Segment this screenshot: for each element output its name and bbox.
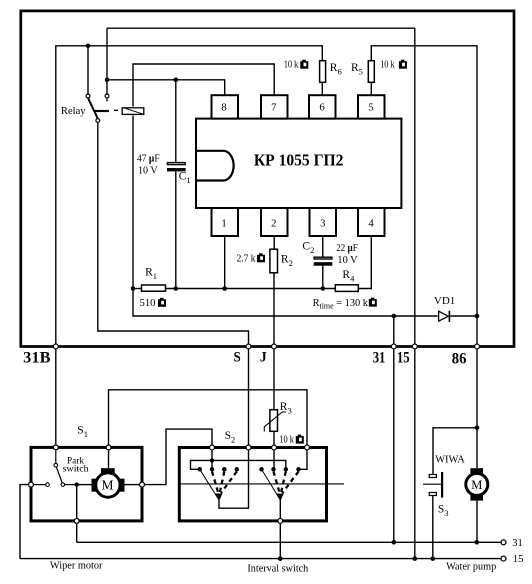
left cluster contacts: [197, 467, 239, 472]
node junction rail15 b: [413, 556, 418, 561]
relay arm pivot contact: [96, 119, 100, 123]
terminal J: [272, 344, 277, 349]
terminal interval J: [272, 445, 277, 450]
wire: interval 1 drop: [211, 450, 213, 469]
svg-text:8: 8: [221, 101, 226, 113]
resistor R6: [320, 61, 326, 83]
wire: pivot to bottom terminal: [279, 500, 281, 518]
svg-text:510: 510: [140, 298, 156, 309]
diode VD1: [439, 311, 450, 322]
wire: motor plus: [108, 450, 110, 468]
svg-text:31: 31: [373, 350, 386, 367]
terminal 15 bottom: [501, 556, 506, 561]
wire: wiper right to interval contact 1: [145, 429, 212, 485]
node junction rail15 a: [278, 556, 283, 561]
wire: terminal 15 below: [414, 349, 416, 558]
terminal interval bottom: [278, 519, 283, 524]
wire: J drop to contact: [273, 450, 275, 469]
wiper motor M1: [92, 468, 125, 497]
wire: node to terminal 31: [393, 316, 395, 347]
node junction relay b / pin8: [105, 78, 110, 83]
IC pin 5: [358, 95, 385, 118]
svg-text:5: 5: [368, 101, 373, 113]
svg-text:47 µF: 47 µF: [137, 154, 160, 165]
wire: net 15 top run: [107, 28, 415, 346]
svg-text:7: 7: [271, 101, 277, 113]
wire: R6 to pin 6: [321, 83, 323, 95]
wire: wiper bottom terminal to rail 31: [76, 524, 78, 543]
wire: S to interval switch: [248, 349, 250, 444]
label R2 value: [237, 253, 265, 264]
terminal 86: [475, 344, 480, 349]
wire: J to R3: [273, 349, 275, 409]
node junction terminal 31: [392, 314, 397, 319]
wire: pump to rail 31: [476, 501, 478, 543]
node junction rail31 a: [392, 540, 397, 545]
svg-text:switch: switch: [63, 464, 89, 474]
rail 31 bottom: [77, 541, 501, 543]
right cluster pivot arrow: [277, 494, 284, 502]
resistor R2: [270, 249, 278, 273]
wire: pin 1 to R1 rail: [224, 236, 226, 289]
svg-text:M: M: [102, 478, 114, 493]
svg-text:4: 4: [368, 218, 374, 230]
IC pin 7: [261, 95, 288, 118]
wire: relay contact b drop: [106, 28, 108, 94]
node junction rail31 b: [475, 540, 480, 545]
wire: pin 2 to R2: [273, 236, 275, 249]
capacitor C2: [314, 257, 333, 266]
wire: R3 to interval switch: [273, 432, 275, 445]
terminal interval 4: [305, 445, 310, 450]
svg-text:S: S: [234, 350, 241, 366]
wire: park node down: [76, 485, 78, 518]
wire: wiper left terminal to ground rail: [20, 485, 28, 559]
terminal interval 1: [210, 445, 215, 450]
node junction park: [75, 482, 79, 486]
label R6 value: [284, 60, 309, 71]
IC pin 8: [212, 95, 239, 118]
IC U1 body: [196, 119, 401, 208]
terminal interval S: [246, 445, 251, 450]
svg-text:15: 15: [397, 350, 410, 367]
IC pin 6: [309, 95, 336, 118]
svg-text:10 k: 10 k: [284, 60, 299, 71]
svg-text:1: 1: [221, 218, 226, 230]
svg-text:Water pump: Water pump: [446, 561, 497, 573]
relay contact b: [105, 94, 109, 98]
right cluster dashed positions: [274, 472, 299, 494]
wire: R1 right to C2 node: [166, 288, 335, 290]
svg-text:10 k: 10 k: [279, 435, 294, 446]
label R5 value: [380, 60, 407, 71]
svg-text:6: 6: [319, 101, 325, 113]
wire: terminal 86 below: [476, 349, 478, 468]
wire: cross tie left cluster: [191, 460, 213, 469]
node junction pin1: [222, 286, 227, 291]
node junction 86 line: [475, 314, 480, 319]
wire: pin 3 to C2: [322, 236, 324, 257]
IC pin 1: [212, 208, 239, 236]
wire: diode cathode to 86: [450, 315, 477, 317]
svg-text:Interval switch: Interval switch: [247, 562, 308, 574]
relay arm: [88, 98, 118, 119]
IC pin 4: [358, 208, 385, 236]
wiper motor box: [31, 447, 142, 521]
wire: R2 to terminal J: [273, 274, 275, 347]
resistor R4: [335, 285, 358, 292]
wire: washer switch feed: [433, 428, 477, 475]
left cluster dashed positions: [212, 472, 237, 494]
svg-text:10 k: 10 k: [380, 60, 395, 71]
terminal wiper park: [53, 445, 58, 450]
node junction C1 bottom: [174, 286, 179, 291]
wire: relay coil bottom to R1 left: [132, 116, 134, 289]
node junction washer top: [475, 426, 480, 431]
svg-text:31B: 31B: [23, 350, 51, 367]
wire: C1 bottom lead: [175, 172, 177, 289]
svg-text:2.7 k: 2.7 k: [237, 254, 256, 265]
right cluster arm: [262, 469, 281, 500]
svg-text:J: J: [260, 350, 267, 366]
rail 15 bottom: [20, 558, 501, 560]
IC D-notch: [197, 151, 234, 181]
wire: net 31B top run: [56, 46, 323, 347]
node junction on 31B run: [86, 44, 91, 49]
terminal 31: [391, 344, 396, 349]
wire: C2 bottom: [322, 266, 324, 289]
capacitor C1: [167, 163, 186, 172]
relay coil: [122, 108, 144, 115]
svg-text:КР 1055 ГП2: КР 1055 ГП2: [254, 151, 344, 170]
svg-text:3: 3: [320, 218, 325, 230]
wire: motor plus to interval contact 4: [109, 390, 308, 445]
wire: R5 top to terminal 86: [371, 46, 477, 347]
wire: cross tie to right cluster contact 3: [212, 460, 286, 469]
terminal S: [246, 344, 251, 349]
wire: washer switch to rail 15: [432, 496, 434, 559]
wire: timing node to diode: [133, 289, 438, 317]
wire: motor right to terminal: [125, 484, 140, 486]
resistor R1: [142, 285, 166, 291]
node junction C2: [321, 286, 326, 291]
IC pin 2: [261, 208, 288, 236]
svg-text:31: 31: [512, 538, 523, 549]
svg-text:22 µF: 22 µF: [336, 243, 358, 254]
node junction rail15 c: [431, 556, 436, 561]
wire: interval bottom to rail 15: [279, 524, 281, 559]
mechanical linkage line: [180, 483, 344, 485]
svg-text:Wiper motor: Wiper motor: [50, 560, 103, 572]
svg-text:10 V: 10 V: [138, 166, 158, 177]
svg-text:86: 86: [452, 350, 467, 367]
park switch S1: [34, 450, 77, 486]
resistor R3 trimmer: [264, 410, 286, 432]
svg-text:15: 15: [513, 554, 524, 565]
right cluster contacts: [259, 467, 301, 472]
wire: 31B to park switch: [55, 349, 57, 444]
resistor R5: [368, 61, 374, 83]
wire: pin 8 feed: [107, 80, 225, 95]
label Rtime value: [313, 298, 377, 311]
svg-text:WIWA: WIWA: [435, 454, 465, 466]
terminal 15: [412, 344, 417, 349]
svg-text:M: M: [471, 478, 482, 492]
wire: C1 top lead: [175, 80, 177, 162]
washer switch S3: [423, 472, 443, 498]
wire: S drop to pivot: [219, 450, 249, 508]
terminal 31B: [53, 344, 58, 349]
IC pin 3: [310, 208, 337, 236]
outer control-unit box: [21, 11, 514, 347]
wire: R1 rail: [133, 288, 141, 290]
relay contact a: [86, 94, 90, 98]
wire: relay contact a drop: [87, 46, 89, 95]
relay contact b stub: [106, 98, 108, 102]
wire: terminal 31 below: [393, 349, 395, 542]
left cluster arm: [200, 469, 219, 500]
interval switch box: [179, 448, 326, 521]
wire: park node to motor: [77, 484, 92, 486]
terminal wiper left: [29, 482, 34, 487]
node junction R1 left: [131, 286, 136, 291]
svg-text:Relay: Relay: [61, 105, 86, 117]
terminal wiper plus: [106, 445, 111, 450]
terminal 31 bottom: [501, 540, 506, 545]
label R1 value: [140, 298, 167, 309]
wire: interval 4 drop: [299, 450, 308, 469]
svg-text:VD1: VD1: [434, 295, 455, 307]
svg-text:2: 2: [271, 218, 276, 230]
node junction C1 top: [174, 78, 179, 83]
wire: relay arm to S terminal: [98, 122, 249, 346]
svg-text:10 V: 10 V: [337, 255, 358, 266]
terminal wiper right: [140, 482, 145, 487]
wire: R4 to pin 4: [359, 236, 371, 289]
wire: pin 7 feed / relay coil top: [133, 64, 274, 107]
node junction interval: [210, 458, 214, 462]
water pump motor M2: [466, 468, 488, 500]
wire: R5 to pin 5: [370, 83, 372, 95]
terminal wiper bottom: [74, 518, 79, 523]
left cluster pivot arrow: [216, 494, 223, 502]
label R3 value: [279, 435, 304, 446]
